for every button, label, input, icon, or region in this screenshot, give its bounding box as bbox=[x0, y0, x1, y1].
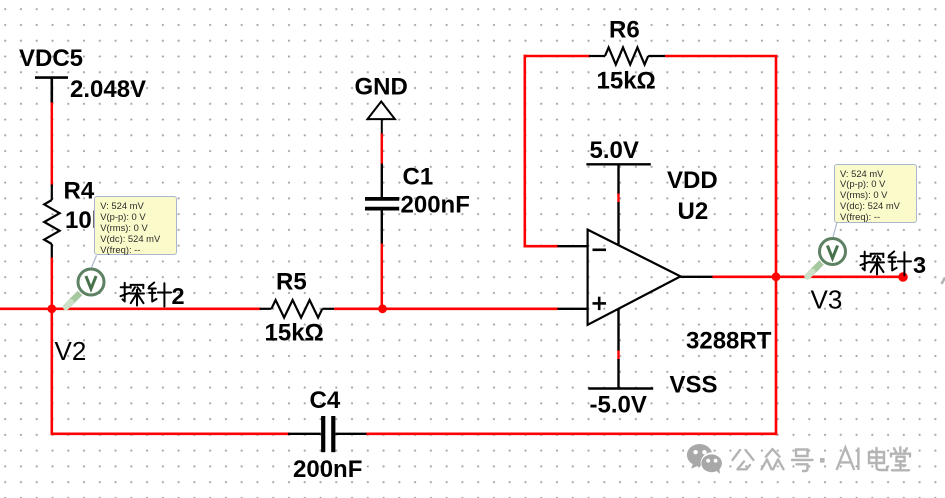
wire main input from left edge bbox=[0, 307, 261, 310]
svg-text:VDD: VDD bbox=[667, 167, 718, 194]
svg-text:3288RT: 3288RT bbox=[686, 327, 772, 354]
ground symbol GND bbox=[368, 102, 395, 135]
resistor R5 bbox=[260, 300, 335, 318]
wire feedback right vertical bbox=[775, 55, 778, 435]
svg-text:GND: GND bbox=[355, 73, 408, 100]
svg-text:C1: C1 bbox=[403, 163, 434, 190]
pin op-amp VDD bbox=[617, 202, 619, 245]
VSS power symbol bbox=[588, 359, 653, 389]
pin op-amp non-inverting input bbox=[558, 308, 588, 310]
node output junction bbox=[772, 272, 781, 281]
svg-text:V2: V2 bbox=[55, 336, 87, 366]
svg-text:5.0V: 5.0V bbox=[590, 137, 639, 164]
wire GND to C1 bbox=[381, 134, 384, 165]
tooltip pointer probe 3 bbox=[833, 223, 837, 238]
node V2 junction bbox=[47, 304, 56, 313]
tooltip pointer probe 2 bbox=[92, 256, 97, 268]
probe 2 icon bbox=[66, 269, 104, 307]
wire bottom rail left of C4 bbox=[52, 432, 290, 435]
svg-text:2: 2 bbox=[172, 283, 185, 309]
wire R4 to node V2 bbox=[51, 258, 54, 311]
svg-text:3: 3 bbox=[913, 252, 926, 278]
wire op-amp output to probe 3 bbox=[713, 275, 904, 278]
pin op-amp inverting input bbox=[558, 245, 588, 247]
capacitor C4 bbox=[288, 416, 367, 452]
wire R5 to op-amp non-inverting input bbox=[334, 307, 558, 310]
svg-text:U2: U2 bbox=[678, 198, 709, 225]
watermark WeChat icon bbox=[687, 444, 723, 474]
svg-text:15kΩ: 15kΩ bbox=[597, 67, 656, 94]
watermark text: gongzhonghao colon AI dian tang bbox=[733, 447, 911, 471]
svg-text:-5.0V: -5.0V bbox=[590, 391, 647, 418]
svg-text:15kΩ: 15kΩ bbox=[265, 319, 324, 346]
power source VDC5 bbox=[35, 78, 68, 104]
measurement tooltip probe 3 bbox=[834, 164, 917, 223]
watermark fragment at right edge bbox=[942, 278, 945, 285]
wire to inverting input bbox=[524, 245, 559, 248]
wire feedback top right bbox=[665, 55, 777, 58]
VDD power symbol bbox=[586, 164, 650, 194]
wire feedback left vertical bbox=[523, 55, 526, 247]
svg-text:VDC5: VDC5 bbox=[19, 45, 83, 72]
svg-text:200nF: 200nF bbox=[401, 191, 470, 218]
label probe 2 (Chinese: tanzhen 2) bbox=[121, 283, 185, 309]
wire V2 down to bottom rail bbox=[50, 309, 53, 435]
op-amp U2 triangle bbox=[588, 230, 681, 325]
probe 3 icon bbox=[808, 239, 846, 277]
wire VDC5 to R4 bbox=[51, 103, 54, 187]
resistor R6 bbox=[589, 48, 665, 65]
svg-text:VSS: VSS bbox=[670, 371, 718, 398]
wire VDD stub bbox=[617, 194, 619, 203]
wire C1 to main node bbox=[381, 244, 384, 311]
minus sign bbox=[593, 249, 607, 252]
label probe 3 (Chinese: tanzhen 3) bbox=[861, 251, 927, 277]
svg-text:V3: V3 bbox=[811, 285, 843, 315]
capacitor C1 bbox=[365, 164, 399, 245]
svg-text:200nF: 200nF bbox=[293, 456, 362, 483]
svg-text:C4: C4 bbox=[310, 387, 341, 414]
wire bottom rail right of C4 bbox=[367, 432, 778, 435]
svg-text:R6: R6 bbox=[609, 16, 640, 43]
plus sign bbox=[593, 297, 607, 310]
svg-text:2.048V: 2.048V bbox=[70, 76, 146, 103]
node probe 3 endpoint bbox=[898, 272, 908, 282]
pin op-amp VSS bbox=[617, 309, 619, 351]
wire VSS stub bbox=[617, 351, 619, 360]
svg-text:R5: R5 bbox=[276, 268, 307, 295]
measurement tooltip probe 2 bbox=[94, 196, 177, 255]
resistor R4 bbox=[44, 185, 59, 259]
svg-text:R4: R4 bbox=[64, 177, 95, 204]
node R5 C1 junction bbox=[378, 304, 387, 313]
pin op-amp output bbox=[681, 276, 714, 278]
wire feedback top left bbox=[524, 55, 591, 58]
